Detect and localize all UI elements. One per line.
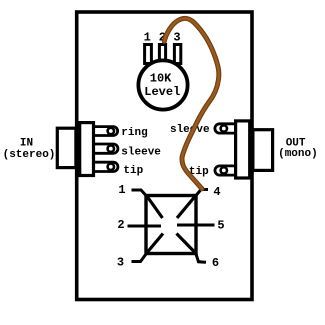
- transformer pin 4 lead: [196, 190, 208, 196]
- input jack tip lug hole: [108, 164, 114, 170]
- transformer pin 1 lead: [132, 190, 147, 196]
- input jack sleeve lug hole: [108, 146, 114, 152]
- transformer winding diagonal bottom-right: [177, 234, 195, 253]
- svg-text:10K: 10K: [150, 71, 172, 85]
- wire highlight core: [164, 18, 219, 188]
- svg-text:5: 5: [217, 219, 224, 233]
- output jack J2 barrel (outside box): [253, 130, 273, 171]
- svg-text:4: 4: [213, 185, 220, 199]
- svg-text:3: 3: [117, 256, 124, 270]
- input jack J1 ring lug: [88, 127, 118, 136]
- potentiometer U1 pin 3: [174, 45, 180, 64]
- potentiometer U1 pin 2: [159, 45, 165, 64]
- input jack J1 sleeve lug: [88, 144, 118, 153]
- potentiometer U1 body (10K Level): [138, 60, 187, 109]
- svg-text:Level: Level: [144, 85, 180, 99]
- transformer pin 2 lead (center tap): [128, 225, 162, 228]
- output jack J2 body: [236, 121, 250, 178]
- svg-text:3: 3: [173, 31, 180, 45]
- input jack J1 barrel (outside box): [57, 128, 76, 167]
- transformer pin 6 lead: [196, 254, 206, 262]
- input jack J1 body: [80, 123, 94, 176]
- transformer winding diagonal bottom-left: [148, 234, 164, 253]
- output jack sleeve lug hole: [221, 125, 227, 131]
- svg-text:6: 6: [212, 256, 219, 270]
- input jack J1 tip lug: [88, 162, 118, 171]
- transformer T1 core square: [146, 196, 196, 254]
- svg-text:(mono): (mono): [278, 148, 318, 160]
- transformer winding diagonal top-left: [148, 197, 163, 218]
- svg-text:sleeve: sleeve: [121, 146, 161, 158]
- output jack J2 tip lug: [215, 166, 241, 175]
- svg-text:1: 1: [144, 31, 151, 45]
- svg-text:2: 2: [117, 218, 124, 232]
- svg-text:(stereo): (stereo): [3, 149, 56, 161]
- potentiometer U1 pin 1: [145, 45, 152, 64]
- enclosure box: [77, 12, 252, 300]
- svg-text:ring: ring: [121, 127, 147, 139]
- svg-text:1: 1: [118, 183, 125, 197]
- transformer pin 3 lead: [132, 254, 147, 262]
- output jack tip lug hole: [221, 167, 227, 173]
- svg-text:IN: IN: [20, 138, 33, 150]
- output jack J2 sleeve lug: [215, 124, 241, 133]
- wire from pot pin 2 to transformer pin 4 (brown hookup wire): [164, 18, 219, 188]
- transformer winding diagonal top-right: [177, 197, 195, 218]
- transformer pin 5 lead (center tap): [177, 224, 215, 227]
- input jack ring lug hole: [108, 128, 114, 134]
- svg-text:tip: tip: [123, 165, 143, 177]
